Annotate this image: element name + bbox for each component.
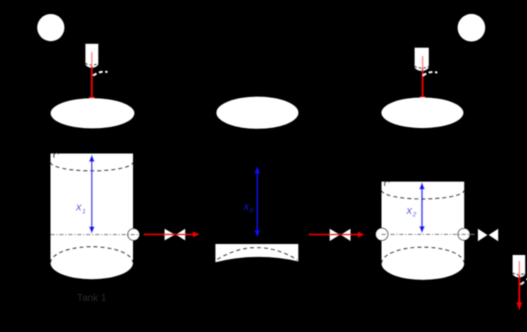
tank 1 body (water) bbox=[51, 154, 134, 280]
circle (inlet source, left) bbox=[37, 14, 64, 41]
tank 1 bottom dashed arc bbox=[51, 247, 134, 263]
tank 2 bottom dashed arc bbox=[382, 247, 465, 263]
tank 2 water-surface dashed arc bbox=[382, 190, 465, 199]
valve V3 bbox=[478, 229, 498, 242]
valve V2 bbox=[330, 229, 351, 241]
inlet pipe P2 (right) bbox=[415, 48, 429, 71]
red flow arrow into tank 2 bbox=[420, 56, 426, 104]
tank 0 rim ellipse (middle) bbox=[216, 97, 298, 129]
tank 2 inlet port circle bbox=[376, 228, 388, 240]
tank 1 outlet port circle bbox=[128, 229, 140, 241]
tank 2 corner curl bbox=[384, 181, 389, 186]
tank 1 water-surface dashed arc bbox=[51, 162, 134, 171]
red flow arrow into tank 1 bbox=[89, 52, 95, 105]
red outflow arrow (bottom right) bbox=[516, 261, 522, 311]
red pipe arrow tank0 -> tank2 bbox=[309, 232, 364, 238]
white dashed spill marks (left pipe) bbox=[93, 72, 107, 76]
tank 2 body (water) bbox=[382, 182, 465, 280]
red pipe arrow tank1 -> tank0 bbox=[144, 232, 200, 238]
tank 2 centerline (dash-dot) bbox=[382, 233, 471, 235]
svg-text:Tank 1: Tank 1 bbox=[77, 293, 107, 304]
blue level arrow x1 (double headed) bbox=[89, 155, 95, 234]
circle (inlet source, right) bbox=[458, 14, 486, 42]
tank 0 bottom dashed arc bbox=[217, 248, 297, 260]
tank 1 rim ellipse bbox=[51, 98, 135, 128]
tank 2 outlet port circle bbox=[458, 228, 470, 240]
blue level arrow x0 (double headed) bbox=[255, 166, 261, 237]
tank 1 corner curl bbox=[54, 153, 59, 158]
tank 2 rim ellipse bbox=[381, 98, 463, 129]
white dashed spill marks (bottom pipe) bbox=[521, 278, 527, 284]
tank 0 bottom water band bbox=[215, 244, 298, 262]
tank 1 centerline (dash-dot) bbox=[51, 234, 140, 236]
valve V1 bbox=[165, 229, 186, 241]
tank 2 centerline extension (right of outlet) bbox=[470, 233, 476, 235]
white dashed spill marks (right pipe) bbox=[423, 72, 437, 76]
blue level arrow x2 (double headed) bbox=[419, 182, 425, 233]
outlet pipe P3 (bottom right) bbox=[513, 255, 526, 277]
inlet pipe P1 (left) bbox=[85, 44, 98, 68]
